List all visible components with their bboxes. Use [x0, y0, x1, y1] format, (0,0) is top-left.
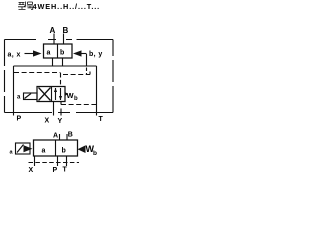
- svg-text:b: b: [74, 96, 78, 102]
- simplified T drop: [66, 156, 68, 166]
- simplified spring arrow: [78, 145, 86, 153]
- envelope bottom edge: [5, 112, 114, 114]
- main valve spring arrow: [65, 92, 68, 96]
- X drop line: [53, 102, 55, 116]
- pilot bottom tick left: [52, 58, 54, 66]
- solenoid a arrow wire: [25, 53, 34, 55]
- T riser: [96, 66, 98, 116]
- svg-text:P: P: [53, 167, 58, 174]
- svg-text:b: b: [62, 148, 66, 155]
- svg-text:b: b: [60, 50, 64, 57]
- Y dashed link: [61, 104, 97, 106]
- crossed arrows position: [39, 88, 51, 101]
- svg-text:P: P: [17, 116, 22, 123]
- pilot valve box: [44, 44, 73, 58]
- svg-text:B: B: [68, 132, 73, 139]
- svg-text:b, y: b, y: [89, 51, 103, 58]
- simplified valve divider: [55, 140, 57, 156]
- drain dashed drop: [60, 73, 62, 87]
- Y port stub: [60, 109, 62, 116]
- parallel arrow up: [55, 88, 57, 100]
- svg-text:A: A: [50, 26, 56, 35]
- pilot valve divider: [57, 44, 59, 58]
- simplified port A tick: [59, 134, 61, 140]
- port B line: [63, 34, 65, 45]
- simplified solenoid arrow: [24, 145, 33, 152]
- Y drop line: [60, 102, 62, 105]
- pilot link bus: [14, 65, 97, 67]
- solenoid b arrow: [73, 50, 82, 56]
- svg-text:a: a: [47, 50, 51, 57]
- pilot bottom tick right: [62, 58, 64, 66]
- drain dashed line left: [14, 72, 61, 74]
- simplified valve body: [34, 140, 78, 156]
- port A line: [53, 34, 55, 45]
- main valve pilot actuator: [24, 93, 38, 100]
- svg-text:4WEH..H../...T...: 4WEH..H../...T...: [33, 2, 101, 11]
- title glyph 型: [18, 2, 26, 10]
- title glyph 号: [27, 2, 33, 10]
- svg-text:Y: Y: [58, 118, 63, 125]
- solenoid a arrow: [33, 50, 42, 56]
- main valve body: [37, 87, 65, 102]
- parallel arrow down: [60, 88, 62, 100]
- svg-text:A: A: [53, 133, 58, 140]
- svg-text:a: a: [10, 150, 14, 156]
- svg-text:X: X: [29, 167, 34, 174]
- svg-text:a: a: [17, 95, 21, 101]
- svg-text:T: T: [99, 116, 104, 123]
- simplified port B tick: [66, 134, 68, 140]
- svg-text:a, x: a, x: [8, 52, 21, 59]
- simplified solenoid diagonal: [17, 145, 24, 153]
- solenoid b elbow wire: [82, 53, 87, 55]
- drain dashed line right: [63, 72, 90, 75]
- envelope right edge: [112, 40, 114, 113]
- simplified dashed manifold line: [29, 162, 80, 164]
- svg-text:a: a: [42, 148, 46, 155]
- main valve divider: [51, 87, 53, 102]
- simplified solenoid box: [16, 143, 31, 154]
- solenoid b drop dashed tail: [86, 68, 88, 76]
- simplified X drop: [34, 156, 36, 166]
- simplified P drop: [57, 156, 59, 166]
- actuator diagonal: [25, 94, 32, 99]
- P riser: [13, 66, 15, 116]
- svg-text:X: X: [45, 118, 50, 125]
- envelope dashed box: [5, 39, 114, 41]
- envelope left edge: [4, 40, 6, 113]
- svg-text:T: T: [63, 167, 68, 174]
- solenoid b drop: [86, 54, 88, 66]
- svg-text:b: b: [93, 150, 97, 157]
